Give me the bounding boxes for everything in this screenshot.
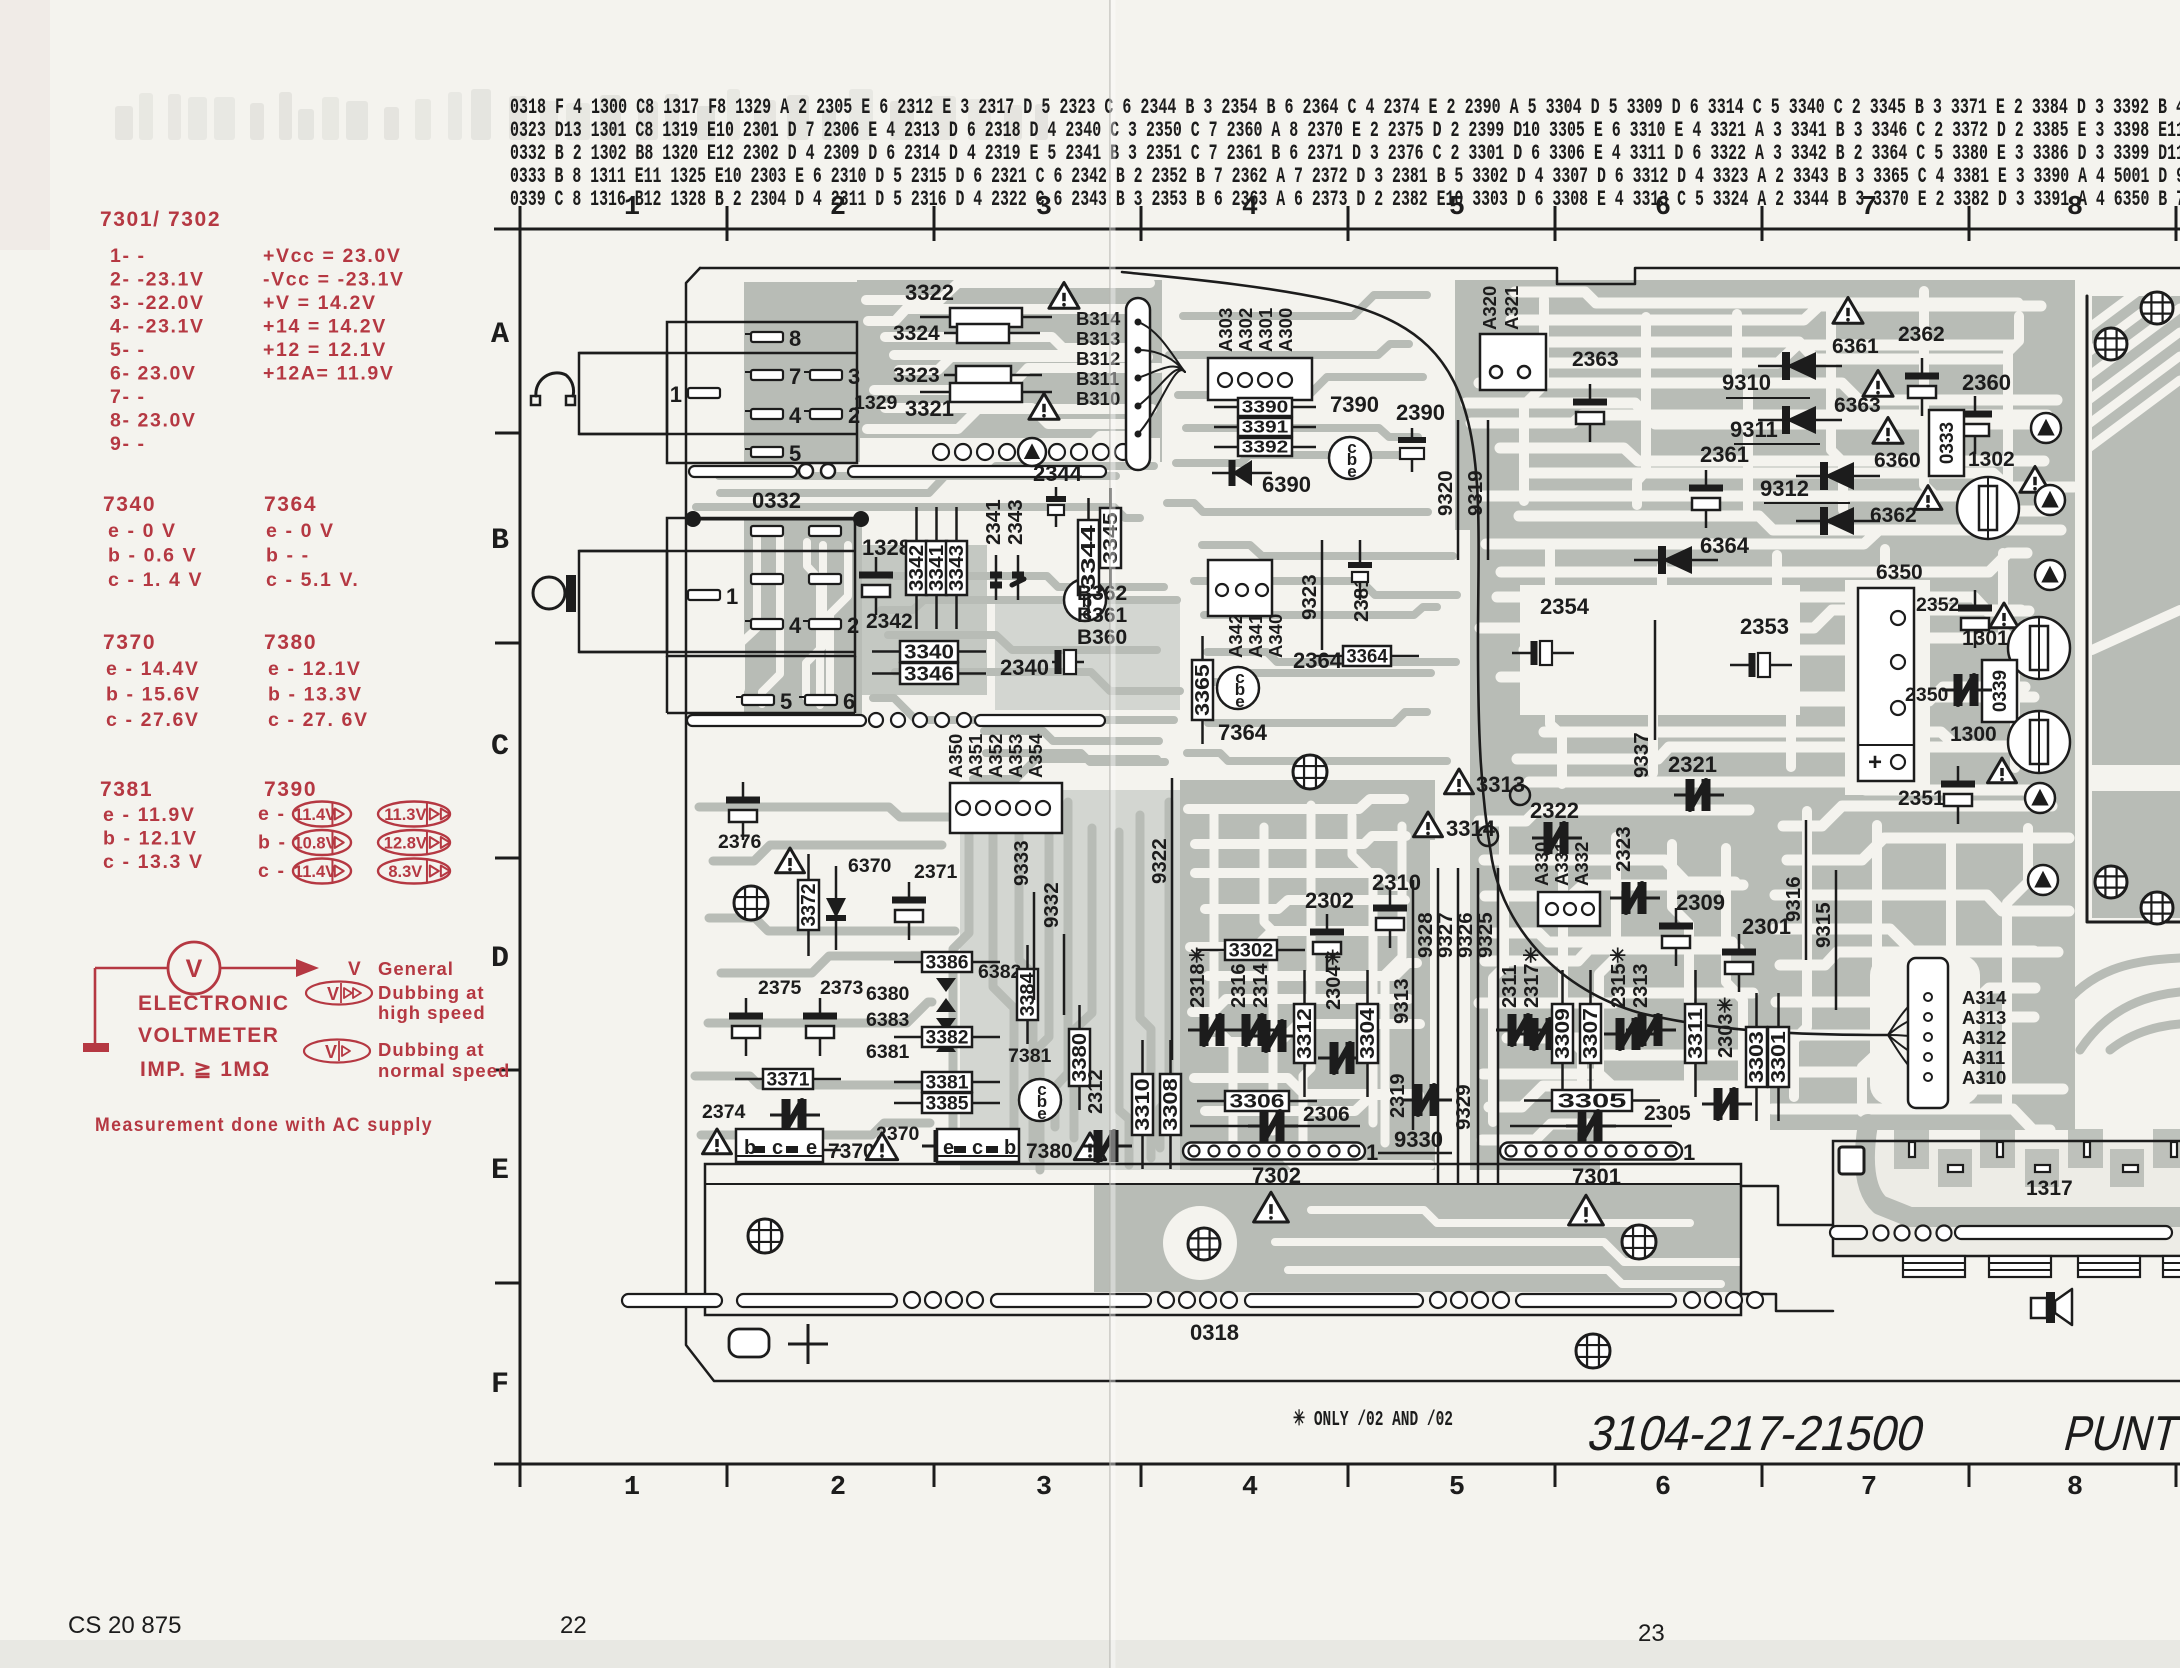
- svg-text:6364: 6364: [1700, 533, 1750, 558]
- svg-text:7380: 7380: [264, 631, 317, 654]
- svg-text:e: e: [1347, 462, 1356, 481]
- resistor 3308: [1169, 1040, 1172, 1074]
- svg-text:normal speed: normal speed: [378, 1060, 510, 1081]
- svg-text:9337: 9337: [1630, 732, 1653, 778]
- svg-text:2342: 2342: [866, 610, 913, 633]
- marker triangle pad row: [1018, 438, 1046, 466]
- svg-text:A332: A332: [1571, 842, 1592, 886]
- svg-text:3304: 3304: [1357, 1008, 1379, 1059]
- svg-text:A313: A313: [1962, 1007, 2006, 1028]
- pin 5: [742, 695, 774, 705]
- resistor 3309: [1561, 970, 1564, 1004]
- PCB copper pour regions: [744, 282, 858, 462]
- capacitor 2362 symbol: [1921, 358, 1924, 376]
- caption: PUNT: [2059, 1406, 2180, 1461]
- svg-text:11.3V: 11.3V: [384, 806, 426, 824]
- capacitor 2352 symbol: [1974, 590, 1977, 608]
- svg-text:c - 27. 6V: c - 27. 6V: [268, 709, 369, 731]
- svg-text:9316: 9316: [1782, 876, 1805, 922]
- connector pad: [751, 526, 783, 536]
- svg-text:9311: 9311: [1730, 417, 1778, 442]
- svg-text:6362: 6362: [1870, 504, 1917, 527]
- svg-text:2373: 2373: [820, 977, 864, 999]
- warning triangle 3372: [776, 848, 805, 873]
- svg-text:2371: 2371: [914, 861, 958, 883]
- svg-text:VOLTMETER: VOLTMETER: [138, 1024, 279, 1047]
- red dubbing normal speed legend: [304, 1040, 370, 1063]
- svg-text:2- -23.1V: 2- -23.1V: [110, 269, 205, 291]
- warning triangle 7380: [1074, 1133, 1105, 1160]
- svg-text:+14 = 14.2V: +14 = 14.2V: [263, 316, 387, 338]
- svg-text:7390: 7390: [264, 778, 317, 801]
- resistor 3311: [1694, 970, 1697, 1004]
- capacitor 2370 symbol: [922, 1145, 938, 1148]
- resistor 3303: [1755, 993, 1758, 1027]
- capacitor: [1738, 934, 1741, 952]
- transistor plate 7370: [736, 1129, 823, 1162]
- connector A31x: [1908, 958, 1948, 1108]
- red dubbing high speed legend: [306, 982, 372, 1005]
- svg-text:CS 20 875: CS 20 875: [68, 1612, 181, 1639]
- svg-text:3305: 3305: [1558, 1090, 1627, 1113]
- RCA jack housing: [579, 551, 667, 652]
- svg-text:e: e: [1235, 692, 1244, 711]
- connector A350 block: [950, 783, 1062, 833]
- wire fan to B31x: [1138, 322, 1185, 372]
- svg-text:1: 1: [726, 584, 738, 609]
- svg-text:6380: 6380: [866, 983, 910, 1005]
- svg-text:3342: 3342: [906, 545, 928, 591]
- svg-text:2375: 2375: [758, 977, 802, 999]
- svg-text:C: C: [491, 730, 509, 764]
- solder slot: [848, 466, 1106, 477]
- pin 1: [688, 388, 720, 398]
- svg-text:3372: 3372: [798, 884, 820, 927]
- svg-text:2309: 2309: [1676, 890, 1725, 915]
- svg-text:9322: 9322: [1148, 838, 1171, 884]
- pin header 7302: [1183, 1143, 1365, 1160]
- svg-text:c - 5.1 V.: c - 5.1 V.: [266, 569, 359, 591]
- svg-text:b -: b -: [258, 832, 287, 854]
- svg-text:3344: 3344: [1078, 525, 1100, 590]
- svg-text:9312: 9312: [1760, 476, 1809, 501]
- svg-text:3104-217-21500: 3104-217-21500: [1583, 1406, 1931, 1461]
- svg-text:3382: 3382: [926, 1027, 969, 1049]
- resistor 3384: [1026, 945, 1029, 969]
- svg-text:3346: 3346: [904, 663, 954, 686]
- svg-text:1: 1: [1366, 1140, 1378, 1165]
- svg-text:7381: 7381: [100, 778, 153, 801]
- capacitor: [908, 882, 911, 900]
- svg-text:7364: 7364: [264, 493, 317, 516]
- svg-text:4: 4: [1242, 193, 1258, 223]
- warning triangle 3370: [703, 1129, 732, 1154]
- svg-text:3310: 3310: [1132, 1078, 1154, 1130]
- svg-text:3312: 3312: [1294, 1008, 1316, 1059]
- svg-text:3340: 3340: [904, 641, 954, 664]
- resistor 3346: [872, 672, 900, 675]
- mounting hole right panel b: [2141, 892, 2173, 924]
- diode: [1796, 475, 1880, 478]
- svg-text:2350: 2350: [1905, 684, 1949, 706]
- pin 5: [751, 447, 783, 457]
- resistor 3372: [807, 854, 810, 880]
- svg-text:2364: 2364: [1293, 648, 1343, 673]
- svg-text:3322: 3322: [905, 280, 954, 305]
- capacitor 2342 symbol: [875, 557, 878, 575]
- keyboard C-shaped trace: [1865, 1124, 2180, 1217]
- jumper 0339: [1982, 660, 2017, 722]
- svg-text:4- -23.1V: 4- -23.1V: [110, 316, 205, 338]
- svg-text:0318: 0318: [1190, 1320, 1239, 1345]
- svg-text:2363: 2363: [1572, 348, 1619, 371]
- resistor 3365: [1201, 636, 1204, 660]
- adjustment point marker: [2035, 560, 2065, 590]
- svg-text:11.4V: 11.4V: [294, 806, 336, 824]
- svg-text:1: 1: [624, 193, 640, 223]
- svg-text:3365: 3365: [1192, 664, 1214, 716]
- solder slot: [689, 466, 797, 477]
- red oval 12.8V dubbing: [378, 830, 450, 855]
- svg-text:A341: A341: [1245, 614, 1266, 658]
- svg-text:2362: 2362: [1898, 323, 1945, 346]
- resistor 3344: [1087, 498, 1090, 520]
- svg-text:A300: A300: [1275, 308, 1296, 352]
- pin header 7301: [1500, 1143, 1682, 1160]
- svg-text:9329: 9329: [1452, 1084, 1475, 1130]
- svg-text:A320: A320: [1479, 286, 1500, 330]
- svg-text:4: 4: [1242, 1473, 1258, 1503]
- svg-text:D: D: [491, 942, 509, 976]
- resistor 3306: [1197, 1100, 1225, 1103]
- capacitor: [1518, 1033, 1534, 1036]
- svg-text:3: 3: [848, 364, 860, 389]
- svg-text:9332: 9332: [1040, 882, 1063, 928]
- svg-text:7301/ 7302: 7301/ 7302: [100, 208, 221, 231]
- warning triangle 6363: [1863, 370, 1893, 396]
- svg-text:22: 22: [560, 1612, 587, 1639]
- red oval 11.3V dubbing: [378, 802, 450, 827]
- svg-text:5: 5: [1449, 193, 1465, 223]
- svg-text:2314: 2314: [1250, 963, 1272, 1008]
- svg-text:9333: 9333: [1010, 840, 1033, 886]
- keyboard board copper pads: [1894, 1130, 1929, 1169]
- svg-text:7301: 7301: [1572, 1164, 1621, 1189]
- svg-text:V: V: [348, 959, 361, 980]
- svg-text:3: 3: [1036, 1473, 1052, 1503]
- warning triangle near 3321: [1029, 393, 1059, 419]
- svg-text:2316: 2316: [1228, 964, 1250, 1009]
- svg-text:3311: 3311: [1685, 1008, 1707, 1059]
- fuse 1302: [1957, 477, 2019, 539]
- svg-text:V: V: [327, 984, 339, 1004]
- resistor 3385: [894, 1102, 922, 1105]
- svg-text:General: General: [378, 958, 454, 979]
- svg-text:4: 4: [789, 613, 802, 638]
- diode: [1758, 419, 1842, 422]
- adjustment point marker: [2028, 645, 2058, 675]
- solder slot: [1955, 1226, 2172, 1239]
- connector A303 block: [1208, 358, 1312, 400]
- warning triangle 7302: [1254, 1192, 1289, 1222]
- mounting hole D1: [734, 886, 768, 920]
- svg-text:3386: 3386: [926, 952, 969, 974]
- svg-text:6: 6: [1655, 1473, 1671, 1503]
- red oval 11.4V: [293, 802, 351, 827]
- wire connector B31x: [1126, 298, 1150, 470]
- solder slot: [991, 1294, 1151, 1307]
- svg-text:3392: 3392: [1242, 437, 1289, 457]
- svg-text:9330: 9330: [1394, 1127, 1443, 1152]
- svg-text:3302: 3302: [1229, 940, 1274, 962]
- svg-text:3309: 3309: [1552, 1008, 1574, 1059]
- resistor 3305: [1524, 1099, 1552, 1102]
- headphone jack housing: [579, 353, 667, 434]
- svg-text:7: 7: [1861, 193, 1877, 223]
- svg-text:7380: 7380: [1026, 1140, 1073, 1163]
- svg-text:e -: e -: [258, 803, 286, 825]
- svg-text:9319: 9319: [1464, 470, 1487, 516]
- svg-text:e - 11.9V: e - 11.9V: [103, 804, 195, 826]
- svg-text:10.8V: 10.8V: [293, 835, 336, 853]
- svg-text:Measurement done with AC s: Measurement done with AC supply: [95, 1114, 433, 1136]
- svg-text:high speed: high speed: [378, 1002, 486, 1023]
- mounting hole right panel top b: [2141, 292, 2173, 324]
- capacitor: [1604, 1033, 1620, 1036]
- svg-text:2317✳: 2317✳: [1521, 947, 1543, 1008]
- svg-text:1300: 1300: [1950, 723, 1997, 746]
- svg-text:A342: A342: [1225, 614, 1246, 658]
- svg-text:3381: 3381: [926, 1072, 969, 1094]
- svg-text:9- -: 9- -: [110, 433, 146, 455]
- svg-text:2302: 2302: [1305, 888, 1354, 913]
- svg-text:3385: 3385: [926, 1093, 969, 1115]
- svg-text:c - 27.6V: c - 27.6V: [106, 709, 200, 731]
- svg-text:7: 7: [1861, 1473, 1877, 1503]
- resistor 3302: [1197, 949, 1225, 952]
- svg-text:9313: 9313: [1390, 978, 1413, 1024]
- page fold crease: [1109, 0, 1111, 1668]
- svg-text:6383: 6383: [866, 1009, 910, 1031]
- svg-text:7- -: 7- -: [110, 386, 146, 408]
- pin 1 lower: [688, 590, 720, 600]
- svg-text:7370: 7370: [103, 631, 156, 654]
- svg-text:e - 0 V: e - 0 V: [266, 520, 335, 542]
- svg-text:B360: B360: [1077, 626, 1127, 649]
- heatsink bar 7301/7302 outline: [705, 1164, 1741, 1315]
- svg-text:2376: 2376: [718, 831, 762, 853]
- solder slot: [687, 715, 866, 726]
- adjustment point marker: [2028, 865, 2058, 895]
- svg-text:2315✳: 2315✳: [1608, 947, 1630, 1008]
- resistor 3310: [1141, 1040, 1144, 1074]
- svg-text:2354: 2354: [1540, 594, 1590, 619]
- svg-text:1: 1: [670, 382, 682, 407]
- transistor: [1329, 437, 1371, 479]
- right panel white channels: [2086, 260, 2180, 330]
- capacitor: [1188, 1029, 1204, 1032]
- transistor: [1217, 667, 1259, 709]
- mounting hole heatsink right: [1622, 1225, 1656, 1259]
- solder slot: [1516, 1294, 1676, 1307]
- svg-text:F: F: [491, 1368, 509, 1402]
- svg-text:23: 23: [1638, 1620, 1665, 1647]
- svg-text:2344: 2344: [1033, 461, 1083, 486]
- solder slot: [622, 1294, 722, 1307]
- svg-text:2390: 2390: [1396, 400, 1445, 425]
- svg-text:A350: A350: [945, 734, 966, 778]
- adjustment point marker: [2031, 413, 2061, 443]
- pin 4: [751, 619, 783, 629]
- resistor 3370: [735, 1149, 763, 1152]
- svg-text:ELECTRONIC: ELECTRONIC: [138, 992, 290, 1015]
- svg-text:2361: 2361: [1700, 442, 1749, 467]
- svg-text:2305: 2305: [1644, 1102, 1691, 1125]
- resistor 3364: [1315, 655, 1343, 658]
- svg-text:+Vcc = 23.0V: +Vcc = 23.0V: [263, 245, 401, 267]
- svg-text:b - 13.3V: b - 13.3V: [268, 684, 363, 706]
- svg-text:A321: A321: [1501, 286, 1522, 330]
- mounting hole center: [1293, 755, 1327, 789]
- svg-text:1302: 1302: [1968, 448, 2015, 471]
- svg-text:9323: 9323: [1298, 574, 1321, 620]
- svg-text:5: 5: [789, 441, 801, 466]
- svg-text:6- 23.0V: 6- 23.0V: [110, 363, 197, 385]
- svg-text:8: 8: [2067, 193, 2083, 223]
- warning triangle 6362: [1914, 486, 1942, 510]
- mounting hole heatsink center: [1188, 1228, 1220, 1260]
- mounting hole right panel a: [2095, 866, 2127, 898]
- capacitor 2361 symbol: [1705, 470, 1708, 488]
- svg-text:2340: 2340: [1000, 655, 1049, 680]
- capacitor 2374 symbol: [770, 1114, 786, 1117]
- fuse 1301: [2008, 617, 2070, 679]
- svg-text:3306: 3306: [1229, 1091, 1284, 1113]
- svg-text:e - 12.1V: e - 12.1V: [268, 658, 362, 680]
- svg-text:8.3V: 8.3V: [388, 863, 422, 881]
- svg-text:8- 23.0V: 8- 23.0V: [110, 410, 197, 432]
- capacitor 2323 symbol: [1610, 897, 1626, 900]
- svg-text:5- -: 5- -: [110, 339, 146, 361]
- svg-text:+V = 14.2V: +V = 14.2V: [263, 292, 377, 314]
- svg-text:+12A= 11.9V: +12A= 11.9V: [263, 363, 394, 385]
- warning triangle 1300: [1988, 758, 2017, 783]
- red oval 11.4V: [293, 859, 351, 884]
- svg-text:7364: 7364: [1218, 720, 1268, 745]
- svg-text:-Vcc = -23.1V: -Vcc = -23.1V: [263, 269, 405, 291]
- svg-text:c -: c -: [258, 860, 286, 882]
- capacitor 2322 symbol: [1532, 837, 1548, 840]
- svg-text:0339 C 8 1316 B12 1328 B 2: 0339 C 8 1316 B12 1328 B 2 2304 D 4 2311…: [510, 186, 2180, 212]
- diode: [1758, 365, 1842, 368]
- main harness wire curve: [1122, 272, 1888, 1035]
- diode 6390: [1232, 460, 1252, 486]
- svg-text:7: 7: [789, 364, 801, 389]
- svg-text:A331: A331: [1551, 842, 1572, 886]
- svg-text:A310: A310: [1962, 1067, 2006, 1088]
- capacitor 2350 symbol: [1942, 689, 1958, 692]
- svg-text:3303: 3303: [1746, 1031, 1768, 1083]
- svg-text:A311: A311: [1962, 1047, 2005, 1068]
- svg-text:A302: A302: [1235, 308, 1256, 352]
- svg-text:IMP. ≧ 1MΩ: IMP. ≧ 1MΩ: [140, 1058, 271, 1081]
- keyboard board outline: [1833, 1141, 2180, 1256]
- connector pad: [751, 574, 783, 584]
- svg-text:6: 6: [843, 689, 855, 714]
- svg-text:6381: 6381: [866, 1041, 910, 1063]
- connector 1329 block: [667, 322, 857, 463]
- svg-text:1317: 1317: [2026, 1177, 2073, 1200]
- svg-text:11.4V: 11.4V: [294, 863, 336, 881]
- svg-text:3: 3: [1036, 193, 1052, 223]
- capacitor: [1082, 1145, 1098, 1148]
- red oval 8.3V dubbing: [378, 859, 450, 884]
- svg-text:3390: 3390: [1242, 397, 1289, 417]
- diode stack: [936, 978, 956, 992]
- svg-text:3301: 3301: [1768, 1031, 1790, 1083]
- svg-text:b - 12.1V: b - 12.1V: [103, 828, 198, 850]
- harness fan to A31x pins: [1888, 997, 1928, 1035]
- warning triangle 3313: [1445, 769, 1474, 794]
- svg-text:b - 15.6V: b - 15.6V: [106, 684, 201, 706]
- svg-text:2360: 2360: [1962, 370, 2011, 395]
- resistor 3392: [1214, 446, 1238, 449]
- jumper 0333: [1929, 410, 1964, 476]
- capacitor: [1496, 1029, 1512, 1032]
- capacitor: [819, 998, 822, 1016]
- svg-text:A301: A301: [1255, 308, 1276, 352]
- resistor 3381: [894, 1081, 922, 1084]
- svg-text:0339: 0339: [1990, 670, 2011, 712]
- pin 2: [809, 619, 841, 629]
- diode: [1634, 559, 1718, 562]
- resistor 3345: [1109, 488, 1112, 508]
- svg-text:Dubbing at: Dubbing at: [378, 1039, 485, 1060]
- svg-text:✳ ONLY /02 AND /02: ✳ ONLY /02 AND /02: [1293, 1409, 1453, 1432]
- warning triangle near 3322: [1049, 282, 1079, 308]
- svg-text:A314: A314: [1962, 987, 2007, 1008]
- svg-text:6370: 6370: [848, 855, 892, 877]
- svg-text:2374: 2374: [702, 1101, 746, 1123]
- svg-text:+: +: [1868, 749, 1882, 776]
- svg-text:c - 13.3 V: c - 13.3 V: [103, 851, 204, 873]
- solder slot: [737, 1294, 897, 1307]
- mounting hole heatsink left: [748, 1219, 782, 1253]
- capacitor: [1389, 890, 1392, 908]
- svg-text:2352: 2352: [1916, 594, 1960, 616]
- cross marker: [788, 1343, 828, 1346]
- svg-text:1328: 1328: [862, 535, 911, 560]
- svg-text:A354: A354: [1025, 733, 1046, 778]
- svg-text:2321: 2321: [1668, 752, 1717, 777]
- svg-text:V: V: [186, 955, 203, 983]
- svg-text:2: 2: [847, 613, 859, 638]
- transistor plate 7380: [937, 1129, 1019, 1162]
- svg-text:6382: 6382: [978, 961, 1022, 983]
- svg-text:0333: 0333: [1937, 422, 1958, 464]
- svg-text:9315: 9315: [1812, 902, 1835, 948]
- resistor 3307: [1589, 970, 1592, 1004]
- svg-text:6350: 6350: [1876, 561, 1923, 584]
- svg-text:e: e: [1037, 1104, 1046, 1123]
- caption: part number 3104-217-21500: [1583, 1406, 1931, 1461]
- svg-text:3371: 3371: [767, 1069, 810, 1091]
- resistor 3390: [1214, 406, 1238, 409]
- warning triangle 2352: [1990, 603, 2019, 628]
- svg-text:2381: 2381: [1350, 576, 1373, 622]
- diagram frame: left border: [519, 229, 522, 1484]
- svg-text:7390: 7390: [1330, 392, 1379, 417]
